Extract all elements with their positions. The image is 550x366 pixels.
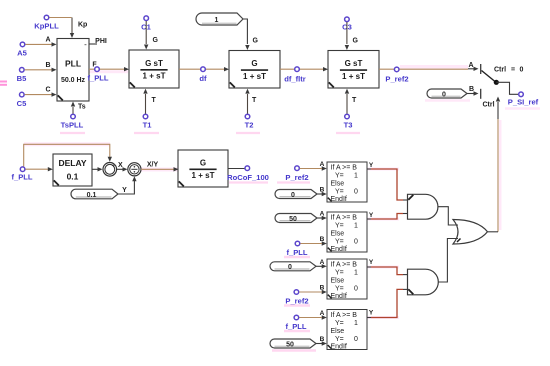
svg-text:50.0 Hz: 50.0 Hz: [61, 77, 86, 84]
svg-text:50: 50: [286, 341, 294, 348]
svg-text:df: df: [199, 74, 207, 83]
svg-text:G: G: [153, 37, 159, 44]
svg-text:PHI: PHI: [95, 38, 107, 45]
svg-text:0: 0: [520, 66, 524, 73]
svg-text:-: -: [84, 40, 87, 49]
svg-text:C: C: [45, 87, 50, 94]
svg-text:df_fltr: df_fltr: [284, 75, 306, 84]
svg-text:Else: Else: [331, 328, 345, 335]
svg-text:0.1: 0.1: [87, 192, 97, 199]
svg-text:1 + sT: 1 + sT: [143, 72, 166, 81]
svg-text:DELAY: DELAY: [58, 158, 86, 168]
svg-text:Y=: Y=: [335, 173, 344, 180]
svg-text:Y: Y: [369, 310, 374, 317]
svg-text:T: T: [152, 97, 157, 104]
svg-text:EndIf: EndIf: [331, 293, 347, 300]
svg-text:RoCoF_100: RoCoF_100: [227, 173, 269, 182]
svg-text:A: A: [468, 62, 473, 69]
svg-text:0.1: 0.1: [67, 172, 79, 182]
svg-text:Y=: Y=: [335, 223, 344, 230]
svg-text:T: T: [352, 97, 357, 104]
svg-text:If A >= B: If A >= B: [331, 262, 358, 269]
svg-text:1 + sT: 1 + sT: [342, 72, 365, 81]
svg-text:Y: Y: [369, 162, 374, 169]
svg-text:1: 1: [354, 270, 358, 277]
svg-text:If A >= B: If A >= B: [331, 215, 358, 222]
svg-text:=: =: [511, 66, 515, 73]
svg-text:X/Y: X/Y: [147, 162, 159, 169]
svg-text:G: G: [253, 38, 259, 45]
svg-text:T3: T3: [344, 121, 353, 130]
svg-text:KpPLL: KpPLL: [34, 22, 59, 31]
svg-text:T1: T1: [143, 121, 153, 130]
svg-text:1 + sT: 1 + sT: [192, 171, 215, 180]
svg-text:Ctrl: Ctrl: [494, 66, 506, 73]
svg-text:1: 1: [354, 320, 358, 327]
svg-text:Else: Else: [331, 231, 345, 238]
svg-text:T2: T2: [245, 121, 254, 130]
svg-text:0: 0: [354, 336, 358, 343]
svg-text:1 + sT: 1 + sT: [243, 72, 266, 81]
svg-text:0: 0: [291, 192, 295, 199]
svg-text:+: +: [112, 164, 115, 170]
svg-text:C5: C5: [17, 99, 27, 108]
svg-text:PLL: PLL: [65, 59, 81, 69]
svg-text:Else: Else: [331, 278, 345, 285]
svg-text:P_ref2: P_ref2: [285, 173, 308, 182]
svg-text:1: 1: [354, 223, 358, 230]
svg-text:A: A: [45, 37, 50, 44]
svg-text:-: -: [105, 170, 107, 176]
svg-text:0: 0: [354, 286, 358, 293]
svg-text:If A >= B: If A >= B: [331, 312, 358, 319]
svg-text:Ts: Ts: [78, 104, 86, 111]
svg-text:G sT: G sT: [145, 59, 163, 68]
svg-text:0: 0: [288, 264, 292, 271]
svg-text:X: X: [118, 162, 123, 169]
svg-text:B: B: [469, 86, 474, 93]
svg-text:Y=: Y=: [335, 320, 344, 327]
svg-text:G: G: [353, 38, 359, 45]
svg-text:f_PLL: f_PLL: [11, 173, 32, 182]
svg-text:0: 0: [442, 91, 446, 98]
svg-text:T: T: [252, 97, 257, 104]
svg-text:Y=: Y=: [335, 239, 344, 246]
svg-text:A5: A5: [17, 49, 27, 58]
svg-text:Kp: Kp: [78, 22, 87, 29]
svg-text:1: 1: [215, 17, 219, 24]
svg-text:Y=: Y=: [335, 336, 344, 343]
svg-text:f_PLL: f_PLL: [285, 322, 306, 331]
svg-text:Y: Y: [122, 187, 127, 194]
svg-text:TsPLL: TsPLL: [61, 121, 84, 130]
svg-text:B5: B5: [17, 74, 27, 83]
svg-text:Else: Else: [331, 181, 345, 188]
svg-text:Y: Y: [369, 212, 374, 219]
svg-text:G: G: [251, 59, 257, 68]
svg-text:P_ref2: P_ref2: [385, 75, 408, 84]
svg-text:EndIf: EndIf: [331, 196, 347, 203]
svg-text:0: 0: [354, 239, 358, 246]
svg-text:If A >= B: If A >= B: [331, 165, 358, 172]
svg-text:G sT: G sT: [345, 59, 363, 68]
svg-text:1: 1: [354, 173, 358, 180]
svg-text:Y=: Y=: [335, 189, 344, 196]
svg-text:EndIf: EndIf: [331, 246, 347, 253]
svg-text:EndIf: EndIf: [331, 344, 347, 351]
svg-text:0: 0: [354, 189, 358, 196]
svg-text:f_PLL: f_PLL: [87, 74, 108, 83]
svg-text:f_PLL: f_PLL: [286, 248, 307, 257]
svg-text:P_SI_ref: P_SI_ref: [508, 98, 539, 107]
svg-text:Y=: Y=: [335, 270, 344, 277]
svg-text:P_ref2: P_ref2: [285, 297, 308, 306]
svg-text:Y: Y: [369, 259, 374, 266]
svg-text:Y=: Y=: [335, 286, 344, 293]
svg-text:G: G: [200, 158, 206, 167]
svg-text:50: 50: [289, 216, 297, 223]
svg-text:B: B: [45, 62, 50, 69]
svg-text:Ctrl: Ctrl: [482, 102, 494, 109]
